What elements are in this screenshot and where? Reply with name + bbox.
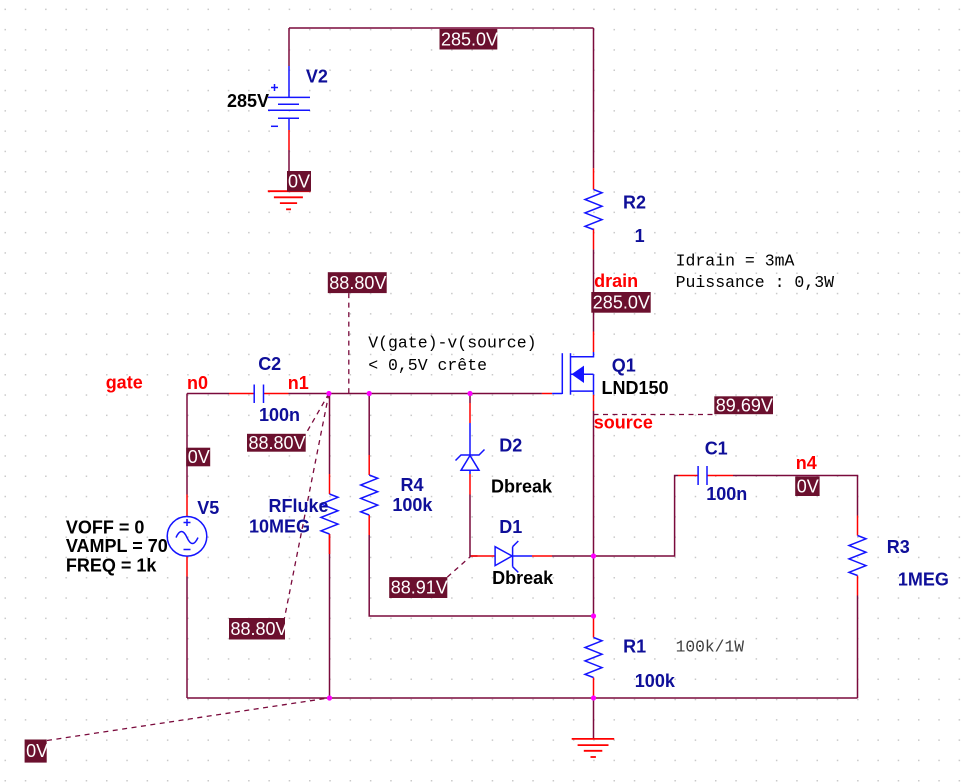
svg-text:C1: C1 [705,438,728,458]
pin R1 top [593,616,595,638]
svg-text:Dbreak: Dbreak [492,568,554,588]
wire R4 branch top [368,394,370,456]
bias label 0V at n4 [795,476,819,496]
ground symbol at bottom [572,739,615,757]
svg-text:88.80V: 88.80V [231,619,288,639]
svg-text:R4: R4 [401,475,424,495]
svg-text:0V: 0V [797,476,819,496]
pin R2 top [593,168,595,189]
svg-text:0V: 0V [188,447,210,467]
svg-text:n4: n4 [796,453,817,473]
wire V2 top [288,28,290,66]
pin C1 left [678,475,698,477]
svg-text:0V: 0V [26,741,48,761]
resistor R3 body [849,536,866,576]
capacitor C1 plates [698,466,707,485]
junction node source net [591,553,596,558]
svg-text:Q1: Q1 [612,355,636,375]
resistor R1 body [585,638,602,678]
wire R3 bottom to rail [857,596,859,699]
wire D2 branch top [469,394,471,404]
svg-text:drain: drain [594,271,638,291]
wire source down to junction [593,411,595,556]
svg-text:R1: R1 [623,637,646,657]
bias label 88.80V top [328,272,387,293]
pin V2 minus [288,130,290,150]
pin R3 bottom [857,576,859,596]
pin D1 cathode [532,555,552,557]
svg-text:FREQ = 1k: FREQ = 1k [66,556,158,576]
pin V5 top [186,495,188,517]
svg-text:n0: n0 [187,373,208,393]
wire bottom rail [187,697,858,699]
svg-text:285V: 285V [227,91,269,111]
svg-text:1MEG: 1MEG [898,569,949,589]
wire V2 bottom to ground [288,150,290,171]
junction node rail R1 [591,695,596,700]
pin C2 right [264,393,289,395]
wire source junction down [593,556,595,616]
pin D2 bottom [469,474,471,495]
wire n1 junction to gate pin [289,393,542,395]
svg-text:gate: gate [106,373,143,393]
voltage source V5 sine symbol [167,517,207,557]
svg-text:R2: R2 [623,192,646,212]
svg-text:R3: R3 [887,537,910,557]
pin D1 anode [471,555,495,557]
svg-text:89.69V: 89.69V [716,395,773,415]
bias label 285.0V top [440,29,499,50]
diode D1 symbol [495,541,532,572]
pin V5 bottom [186,556,188,576]
svg-text:88.80V: 88.80V [249,433,306,453]
pin R4 bottom [368,515,370,535]
pin R2 bottom [593,229,595,250]
dashed probe wire to 88.91V label [447,557,470,578]
svg-text:88.80V: 88.80V [329,273,386,293]
ground symbol under V2 [268,191,311,209]
svg-text:1: 1 [635,226,645,246]
svg-text:100k/1W: 100k/1W [676,638,745,657]
junction node rail RFluke [327,695,332,700]
bias label 285.0V drain [591,292,650,313]
wire RFluke bottom [329,534,331,698]
wire VCC down to R2 [593,28,595,168]
bias label 0V bottom left [25,740,49,763]
svg-text:285.0V: 285.0V [593,293,650,313]
svg-text:RFluke: RFluke [269,496,329,516]
wire C1 right to R3 [733,476,858,516]
dashed probe wire n1 to mid 88.80V label [306,394,329,435]
wire D1 cathode to source junction [552,555,594,557]
svg-text:0V: 0V [288,171,310,191]
wire D2 to D1 corner [470,495,478,557]
wire top rail node VCC [289,27,594,29]
pin R1 bottom [593,678,595,699]
dashed probe wire to top 88.80V label [348,293,350,393]
wire source junction to C1 branch [594,476,679,557]
resistor R2 body [585,190,602,230]
svg-text:100n: 100n [706,484,747,504]
pin Q1 drain [593,332,595,353]
capacitor C2 plates [254,385,263,404]
bias label 0V at V2 ground [287,171,311,192]
wire R1 bottom to ground [593,698,595,739]
bias label 88.91V [389,577,448,598]
wire gate horizontal net n1 [187,393,229,395]
dashed probe wire source to 89.69V label [594,414,715,416]
wire n0 vertical [186,394,188,495]
resistor RFluke body [321,494,338,534]
pin Q1 source [593,395,595,411]
pin Q1 gate [542,393,552,395]
wire V5 bottom to rail [186,577,188,699]
svg-text:100k: 100k [635,671,676,691]
diode D2 zener symbol [456,423,485,474]
junction node R4 top [367,391,372,396]
bias label 88.80V mid [247,433,306,453]
svg-text:10MEG: 10MEG [249,516,310,536]
bias label 88.80V lower [229,618,288,640]
pin R3 top [857,516,859,536]
transistor Q1 arrow [572,366,585,383]
svg-text:V5: V5 [197,498,219,518]
pin D2 top [469,403,471,423]
voltage source V2 battery symbol [268,66,310,130]
wire RFluke branch [329,394,331,475]
svg-text:V(gate)-v(source): V(gate)-v(source) [368,334,536,353]
wire R4 bottom to junction [369,535,593,616]
svg-text:LND150: LND150 [602,378,669,398]
junction node R1 top [591,613,596,618]
svg-text:100k: 100k [392,495,433,515]
svg-text:Puissance : 0,3W: Puissance : 0,3W [676,273,835,292]
pin RFluke bottom [329,534,331,554]
dashed probe wire ground rail to 0V label [47,698,329,741]
dashed probe wire n1 to lower 88.80V label [285,394,329,619]
svg-text:C2: C2 [258,354,281,374]
pin R4 top [368,455,370,475]
svg-text:source: source [594,413,653,433]
junction node D2 top [467,391,472,396]
svg-text:Idrain = 3mA: Idrain = 3mA [676,251,795,270]
svg-text:Dbreak: Dbreak [491,476,553,496]
bias label 0V at n0 [186,447,210,467]
svg-text:VAMPL = 70: VAMPL = 70 [66,536,168,556]
pin C2 left [229,393,254,395]
resistor R4 body [361,475,378,515]
wire R2 to drain [593,249,595,331]
svg-text:V2: V2 [306,66,328,86]
svg-text:285.0V: 285.0V [441,29,498,49]
pin RFluke top [329,474,331,494]
svg-text:< 0,5V crête: < 0,5V crête [368,356,487,375]
transistor Q1 MOSFET symbol [552,352,593,395]
junction node n1 [326,391,331,396]
svg-text:88.91V: 88.91V [391,578,448,598]
svg-text:n1: n1 [288,373,309,393]
bias label 89.69V source [714,395,773,415]
svg-text:D2: D2 [499,436,522,456]
svg-text:D1: D1 [499,517,522,537]
svg-text:VOFF = 0: VOFF = 0 [66,518,145,538]
pin C1 right [707,475,733,477]
svg-text:100n: 100n [259,405,300,425]
